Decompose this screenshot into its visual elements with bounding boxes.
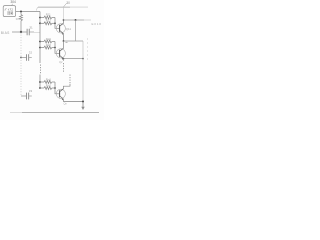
wire to cap C2: [21, 57, 26, 59]
wire bias vertical x21 lower (faint): [20, 58, 22, 97]
wire Q2 collector up: [63, 41, 65, 48]
node rail branch 2: [39, 22, 41, 24]
ellipsis emitter chain x63.5: [63, 63, 65, 72]
wire branch 3 to join: [52, 41, 55, 43]
leader for label 30 on top rail: [64, 3, 67, 6]
wire join vertical to base Q2: [55, 42, 60, 54]
faint dashed load line right: [87, 38, 89, 60]
wire bias text to junction and cap C1: [12, 31, 27, 33]
wire down from node: [20, 12, 22, 15]
wire corner to cap C3: [21, 95, 26, 97]
wire branch 4: [40, 47, 44, 49]
wire branch 6 to join: [52, 87, 55, 89]
wire branch 3: [40, 41, 44, 43]
node emitter stage2: [63, 58, 65, 60]
wire Q2 emitter stub down: [63, 59, 65, 61]
svg-text:Q2: Q2: [59, 60, 63, 64]
top rail Vcc: [36, 7, 38, 10]
node rail branch 1: [39, 17, 41, 19]
resistor Rn2: [44, 87, 52, 90]
wire Qn collector up jog: [64, 84, 71, 89]
current sink arrow: [81, 102, 84, 111]
node bias junction: [20, 31, 22, 33]
node join stage3: [54, 87, 56, 89]
node at cap C2 tap: [20, 57, 22, 59]
svg-text:E010: E010: [92, 22, 102, 26]
wire branch 6: [40, 87, 44, 89]
transistor Q2: [56, 48, 65, 60]
label 304 for box: [11, 0, 17, 5]
svg-text:Q11: Q11: [66, 27, 72, 31]
wire cap C1 right stub: [30, 31, 34, 33]
transistor Qn: [56, 89, 65, 101]
wire branch 5 to join: [52, 81, 55, 83]
node tap on EO1: [75, 19, 77, 21]
resistor R12: [44, 22, 52, 25]
bottom ground rail: [10, 111, 22, 113]
wire tap down: [75, 20, 77, 41]
wire bias vertical x21 down (faint): [20, 32, 22, 58]
wire cap C2 right stub: [29, 57, 32, 59]
svg-text:30: 30: [66, 1, 70, 5]
wire join vertical to base Qn: [55, 82, 60, 94]
wire Q1 collector up: [63, 20, 65, 23]
wire branch 4 to join: [52, 47, 55, 49]
wire branch 1: [40, 17, 44, 19]
svg-text:33: 33: [29, 89, 33, 93]
wire cap C3 right stub: [29, 95, 32, 97]
capacitor C2: [27, 54, 29, 61]
node rail branch 6: [39, 87, 41, 89]
node emitter stage1: [63, 40, 65, 42]
svg-text:R12: R12: [46, 19, 52, 23]
ellipsis collector chain x70: [69, 75, 71, 84]
ellipsis on rail x40: [40, 65, 42, 74]
label Q21 tick: [66, 42, 68, 43]
wire join vertical to base Q1: [55, 18, 60, 29]
node join stage1: [54, 22, 56, 24]
node at x21 on output wire: [20, 11, 22, 13]
svg-text:Rn2: Rn2: [46, 83, 52, 87]
svg-text:R11: R11: [46, 13, 51, 17]
node bus bottom: [82, 101, 84, 103]
resistor R11: [44, 16, 52, 19]
transistor Q1: [56, 23, 65, 35]
svg-text:R21: R21: [46, 37, 52, 41]
svg-text:304: 304: [11, 0, 17, 4]
wire bus x83 down: [82, 41, 84, 102]
node rail branch 4: [39, 47, 41, 49]
wire branch 2: [40, 22, 44, 24]
wire EO1 line: [64, 19, 85, 21]
svg-text:Qn: Qn: [64, 102, 68, 106]
node bus stage2: [82, 58, 84, 60]
node rail branch 3: [39, 41, 41, 43]
wire stage1 output right: [64, 40, 84, 42]
svg-text:R22: R22: [46, 43, 52, 47]
bias circuit box U1: [3, 6, 15, 17]
wire branch 1 to join: [52, 17, 55, 19]
svg-text:31: 31: [29, 25, 33, 29]
resistor R21: [44, 40, 52, 43]
wire branch 2 to join: [52, 22, 55, 24]
node rail branch 5: [39, 81, 41, 83]
svg-text:Rn1: Rn1: [46, 77, 52, 81]
svg-text:BIAS: BIAS: [1, 31, 10, 35]
rail vertical x40: [39, 12, 41, 64]
capacitor C3: [27, 93, 29, 100]
svg-text:回路: 回路: [7, 10, 13, 15]
rail vertical x40 lower: [39, 75, 41, 89]
wire Qn emitter down: [64, 99, 84, 101]
wire branch 5: [40, 81, 44, 83]
wire box output to rail: [16, 11, 40, 13]
wire Q1 emitter down: [63, 34, 65, 41]
node join stage2: [54, 47, 56, 49]
resistor R0 vertical: [20, 15, 23, 21]
wire resistor to bias node: [20, 21, 22, 32]
resistor Rn1: [44, 81, 52, 84]
node collector output EO1: [63, 19, 65, 21]
resistor R22: [44, 46, 52, 49]
capacitor C1: [27, 29, 29, 36]
svg-text:32: 32: [29, 51, 33, 55]
wire stage2 output right: [64, 58, 84, 60]
